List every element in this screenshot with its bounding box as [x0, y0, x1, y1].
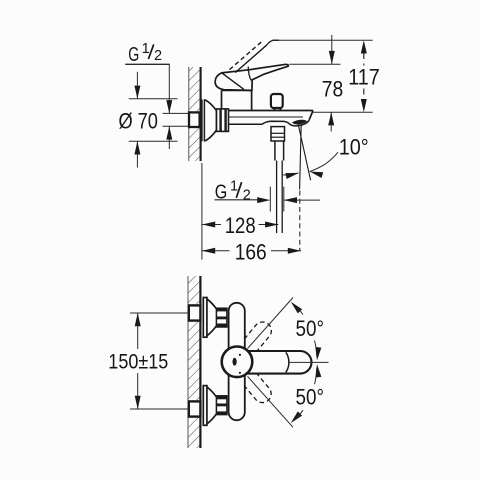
svg-text:128: 128 — [225, 213, 256, 238]
svg-text:1: 1 — [142, 41, 150, 57]
svg-text:166: 166 — [235, 239, 267, 264]
svg-text:78: 78 — [322, 77, 344, 102]
svg-text:50°: 50° — [296, 316, 325, 341]
svg-text:117: 117 — [348, 64, 380, 89]
svg-text:2: 2 — [243, 187, 251, 203]
svg-text:2: 2 — [154, 48, 162, 64]
svg-text:G: G — [128, 44, 139, 66]
svg-text:150±15: 150±15 — [108, 350, 168, 373]
svg-text:50°: 50° — [296, 384, 325, 409]
svg-text:Ø 70: Ø 70 — [118, 108, 158, 133]
svg-text:1: 1 — [230, 179, 238, 195]
svg-text:10°: 10° — [339, 135, 369, 160]
